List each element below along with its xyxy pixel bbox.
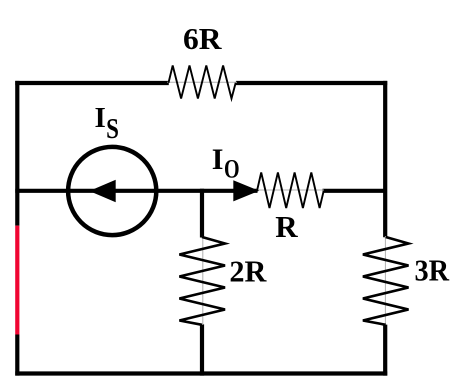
thin lead line through resistor 3R	[384, 236, 386, 325]
resistor 3R zigzag	[363, 237, 409, 325]
svg-text:O: O	[224, 155, 240, 184]
wire top-right segment	[236, 81, 387, 85]
current IO arrow (points right)	[233, 180, 259, 201]
wire middle left (left rail through current source to arrow tip)	[15, 189, 257, 193]
wire 2R branch lower	[200, 324, 204, 375]
wire left lower black segment	[15, 335, 19, 376]
resistor 2R zigzag	[179, 237, 225, 325]
svg-text:6R: 6R	[183, 21, 222, 56]
thin lead line through resistor 2R	[202, 236, 204, 325]
current source arrow (points left)	[89, 180, 115, 202]
wire 2R branch upper	[200, 189, 204, 238]
wire top-left segment	[15, 81, 169, 85]
svg-text:I: I	[212, 143, 224, 176]
thin lead line through resistor R	[256, 189, 324, 191]
thin lead line through resistor 6R	[167, 81, 237, 83]
wire left highlighted red segment	[15, 226, 19, 335]
svg-text:R: R	[275, 209, 298, 244]
wire middle right (resistor R to right rail)	[323, 189, 386, 193]
wire right upper segment	[383, 81, 387, 237]
svg-text:S: S	[106, 114, 119, 145]
wire bottom	[15, 371, 387, 375]
current source IS circle	[68, 147, 156, 235]
svg-text:2R: 2R	[229, 253, 267, 288]
wire left upper (node A to middle)	[15, 81, 19, 226]
resistor R zigzag	[257, 173, 324, 209]
svg-text:3R: 3R	[415, 253, 450, 288]
wire right lower segment	[383, 325, 387, 376]
resistor 6R zigzag	[169, 66, 236, 99]
svg-text:I: I	[95, 102, 106, 134]
